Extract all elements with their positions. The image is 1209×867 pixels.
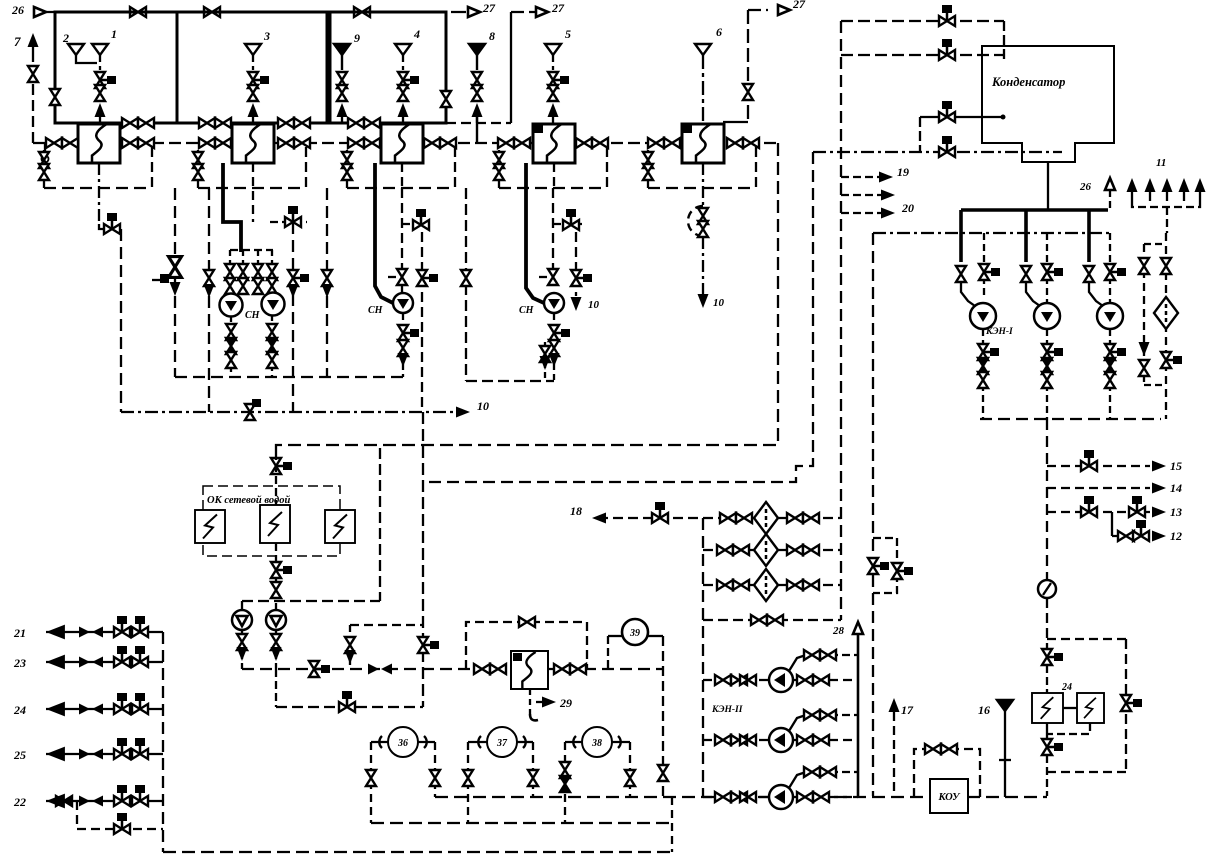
svg-text:18: 18 bbox=[570, 504, 582, 518]
svg-text:16: 16 bbox=[978, 703, 990, 717]
svg-text:3: 3 bbox=[263, 29, 270, 43]
svg-text:21: 21 bbox=[13, 626, 26, 640]
svg-text:24: 24 bbox=[13, 703, 26, 717]
svg-text:4: 4 bbox=[413, 27, 420, 41]
svg-text:9: 9 bbox=[354, 31, 360, 45]
svg-text:27: 27 bbox=[792, 0, 806, 11]
svg-text:14: 14 bbox=[1170, 481, 1182, 495]
svg-text:28: 28 bbox=[832, 625, 845, 637]
svg-text:19: 19 bbox=[897, 165, 909, 179]
svg-text:7: 7 bbox=[14, 34, 21, 49]
svg-text:36: 36 bbox=[397, 738, 408, 749]
svg-text:22: 22 bbox=[13, 795, 26, 809]
svg-text:26: 26 bbox=[1079, 181, 1092, 193]
svg-text:КЭН-I: КЭН-I bbox=[985, 327, 1013, 337]
svg-text:39: 39 bbox=[629, 628, 640, 639]
svg-text:5: 5 bbox=[565, 27, 571, 41]
svg-text:20: 20 bbox=[901, 201, 914, 215]
svg-text:6: 6 bbox=[716, 25, 722, 39]
svg-text:17: 17 bbox=[901, 703, 914, 717]
svg-text:25: 25 bbox=[13, 748, 26, 762]
svg-text:10: 10 bbox=[713, 297, 725, 309]
svg-text:24: 24 bbox=[1061, 682, 1072, 693]
svg-text:27: 27 bbox=[482, 1, 496, 15]
svg-text:КЭН-II: КЭН-II bbox=[711, 705, 743, 715]
svg-text:8: 8 bbox=[489, 29, 495, 43]
svg-text:37: 37 bbox=[496, 738, 508, 749]
svg-text:СН: СН bbox=[368, 305, 384, 316]
svg-text:СН: СН bbox=[519, 305, 535, 316]
svg-text:2: 2 bbox=[62, 31, 69, 45]
svg-text:КОУ: КОУ bbox=[938, 792, 962, 803]
svg-text:23: 23 bbox=[13, 656, 26, 670]
svg-text:СН: СН bbox=[245, 310, 261, 321]
svg-text:26: 26 bbox=[11, 3, 24, 17]
svg-text:15: 15 bbox=[1170, 459, 1182, 473]
svg-text:38: 38 bbox=[591, 738, 602, 749]
svg-text:1: 1 bbox=[111, 27, 117, 41]
svg-text:Конденсатор: Конденсатор bbox=[991, 75, 1065, 89]
svg-text:29: 29 bbox=[559, 696, 572, 710]
svg-text:10: 10 bbox=[477, 399, 489, 413]
svg-text:13: 13 bbox=[1170, 505, 1182, 519]
svg-text:27: 27 bbox=[551, 1, 565, 15]
svg-text:11: 11 bbox=[1156, 157, 1166, 169]
svg-text:10: 10 bbox=[588, 299, 600, 311]
svg-text:12: 12 bbox=[1170, 529, 1182, 543]
